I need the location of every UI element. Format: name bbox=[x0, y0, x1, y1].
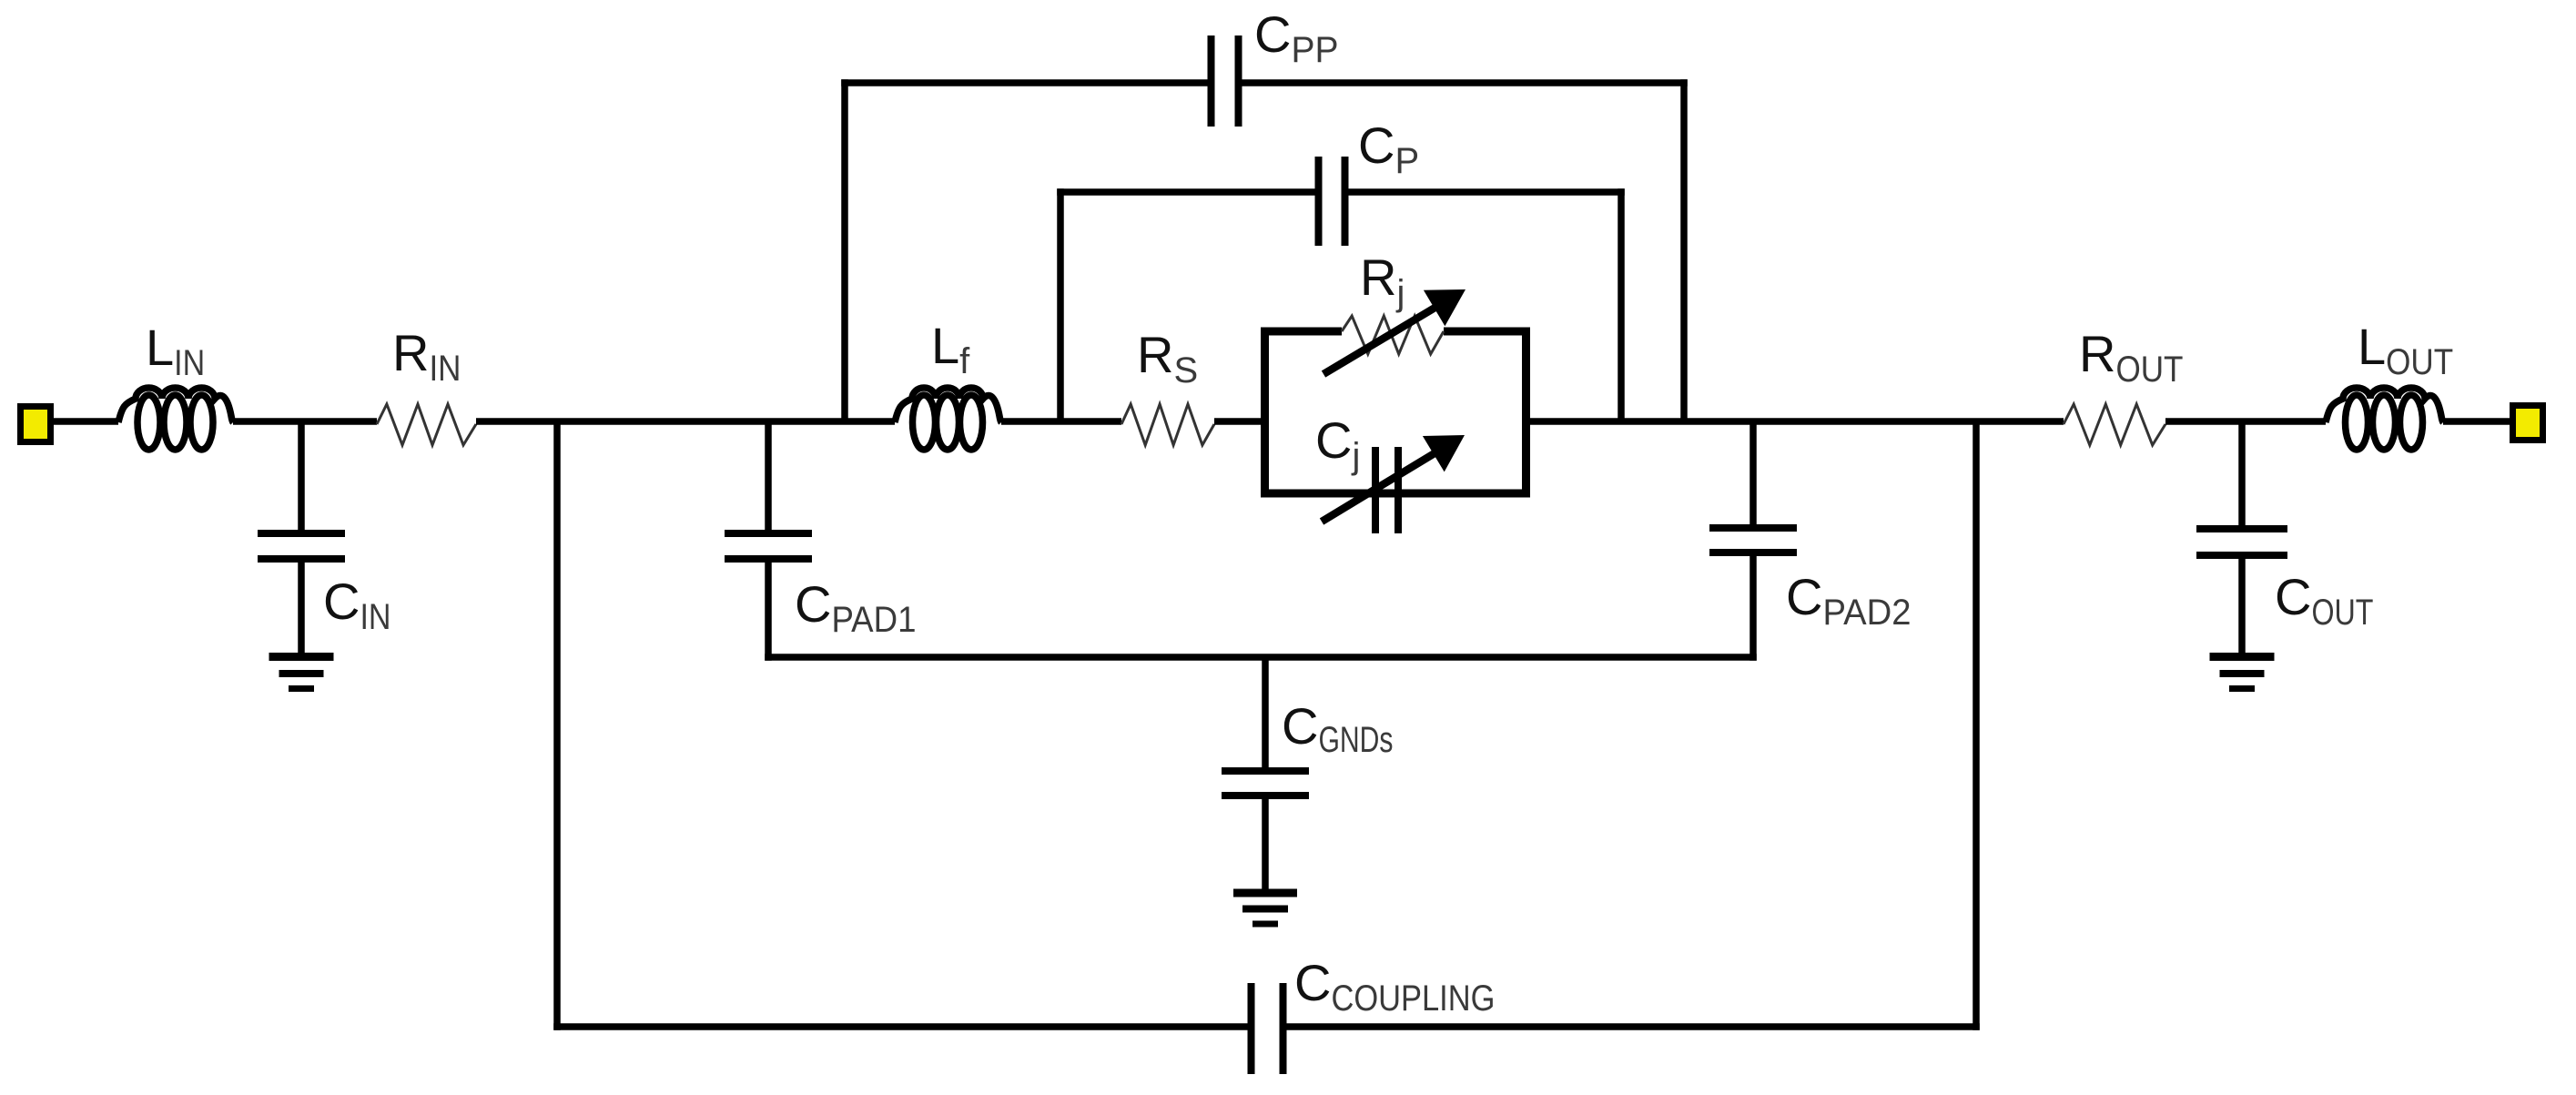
svg-text:LOUT: LOUT bbox=[2358, 318, 2453, 382]
svg-text:Lf: Lf bbox=[931, 317, 970, 381]
svg-text:Rj: Rj bbox=[1360, 248, 1405, 313]
svg-text:CP: CP bbox=[1358, 117, 1419, 181]
svg-text:COUT: COUT bbox=[2275, 568, 2373, 633]
svg-text:CPAD1: CPAD1 bbox=[795, 575, 916, 640]
svg-text:Cj: Cj bbox=[1315, 411, 1360, 476]
svg-text:ROUT: ROUT bbox=[2079, 325, 2183, 390]
svg-text:CPAD2: CPAD2 bbox=[1786, 568, 1911, 633]
svg-text:RIN: RIN bbox=[392, 324, 461, 389]
svg-text:CPP: CPP bbox=[1254, 5, 1338, 70]
svg-text:LIN: LIN bbox=[146, 319, 205, 383]
svg-text:CIN: CIN bbox=[323, 573, 390, 637]
svg-text:RS: RS bbox=[1137, 326, 1198, 390]
svg-text:CGNDs: CGNDs bbox=[1282, 697, 1393, 760]
svg-text:CCOUPLING: CCOUPLING bbox=[1294, 954, 1495, 1019]
